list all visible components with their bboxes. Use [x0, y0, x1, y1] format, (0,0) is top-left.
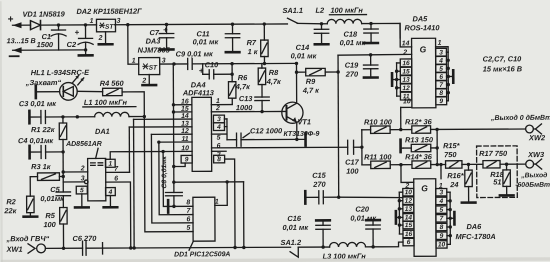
- svg-text:R17 750: R17 750: [479, 149, 508, 158]
- label C5: [50, 185, 60, 194]
- pin 7 DA4: [217, 152, 222, 159]
- label R11 100: [364, 152, 392, 161]
- node C11: [231, 22, 234, 25]
- label MFC-1780A: [455, 232, 495, 241]
- pin 9 DA4 box: [181, 155, 192, 163]
- label R16: [447, 171, 465, 180]
- pin 4 DA5 box: [436, 56, 447, 64]
- svg-text:4,7 к: 4,7 к: [302, 86, 320, 95]
- label DA2 KR1158EN12G: [76, 7, 142, 16]
- svg-text:6: 6: [407, 239, 411, 246]
- wire DA4 pin12: [151, 133, 192, 135]
- label C11 val: [193, 37, 220, 46]
- pin 16 DA6 box: [403, 230, 414, 238]
- resistor R18: [500, 164, 514, 195]
- svg-text:C10: C10: [205, 60, 219, 69]
- label R10 100: [364, 117, 393, 126]
- svg-text:R16*: R16*: [447, 171, 465, 180]
- svg-text:C3 0,01 мк: C3 0,01 мк: [19, 99, 57, 108]
- resistor R8: [258, 64, 266, 98]
- label DA5: [412, 14, 428, 23]
- label R9 val: [302, 86, 320, 95]
- label C9 0,01mk: [176, 49, 214, 58]
- pin 10 DA4: [181, 145, 189, 152]
- capacitor C12: [227, 133, 297, 146]
- svg-text:4: 4: [216, 124, 221, 131]
- connector XW1: [28, 244, 45, 253]
- IC DD1 box: [193, 197, 215, 241]
- pin 9 DA5 box: [436, 97, 447, 105]
- label C4 0,01mk: [18, 136, 54, 145]
- resistor R4: [103, 88, 145, 117]
- wire R11 to DA6 pin2: [401, 165, 414, 183]
- wire DA5 gnd column: [446, 52, 450, 101]
- label C20 val: [350, 214, 377, 223]
- wire DA1 pin7: [106, 171, 130, 173]
- wire DA2 out rail: [114, 23, 287, 26]
- ground VT1 emitter: [297, 133, 306, 145]
- svg-text:„Вход ГВЧ“: „Вход ГВЧ“: [5, 234, 49, 243]
- label C13 val: [236, 103, 253, 112]
- wire bus rail DA4p14: [133, 119, 136, 248]
- node R13 right: [435, 146, 438, 149]
- svg-text:HL1 L-934SRC-E: HL1 L-934SRC-E: [31, 68, 90, 77]
- wire DA5 pin1: [436, 47, 449, 53]
- label G DA6: [421, 183, 428, 193]
- svg-text:100: 100: [346, 167, 359, 176]
- svg-text:C2,C7, C10: C2,C7, C10: [483, 54, 523, 63]
- diode VD1: [30, 21, 40, 30]
- svg-text:SA1.1: SA1.1: [282, 6, 303, 15]
- capacitor C8: [165, 182, 182, 206]
- svg-text:R7: R7: [247, 38, 257, 47]
- connector XW2: [526, 124, 542, 134]
- switch SA1.1: [287, 18, 321, 24]
- pin 10 DA6 box: [403, 188, 414, 196]
- capacitor C12 wire: [224, 119, 227, 140]
- capacitor C5: [56, 176, 71, 207]
- svg-text:15: 15: [402, 68, 410, 75]
- label 15mk16v: [483, 64, 523, 73]
- wire DA4 pin16: [173, 104, 191, 106]
- label AD8561AR: [65, 141, 102, 148]
- pin 6 DA1: [114, 175, 118, 182]
- capacitor C7: [159, 24, 174, 49]
- svg-text:22к: 22к: [3, 206, 17, 215]
- node C15 top: [337, 195, 340, 198]
- wire R3 to R2: [29, 177, 31, 196]
- node atten in: [360, 145, 363, 148]
- arrow plus input: [12, 22, 21, 28]
- wire plus5 to DD1: [174, 182, 244, 206]
- node vdd rail: [242, 246, 245, 249]
- svg-text:VD1 1N5819: VD1 1N5819: [22, 9, 65, 18]
- pin 1 DD1: [215, 199, 219, 206]
- wire DA4 pin2 to base: [211, 110, 286, 112]
- svg-text:10: 10: [403, 98, 411, 105]
- svg-text:R3 1к: R3 1к: [31, 162, 52, 171]
- label VD1 1N5819: [22, 9, 65, 18]
- inductor L1: [95, 112, 145, 117]
- node p16: [172, 103, 175, 106]
- wire atten vertical: [361, 130, 363, 165]
- label plus: [7, 14, 13, 25]
- pin 16 DA4: [181, 99, 189, 106]
- svg-text:C8 0,01мк: C8 0,01мк: [161, 156, 168, 189]
- svg-text:12: 12: [181, 128, 189, 135]
- label XW3: [527, 150, 545, 159]
- wire XW1 to C6: [45, 247, 82, 249]
- node R1 top: [61, 115, 64, 118]
- svg-text:4: 4: [438, 198, 443, 205]
- label zahvat: [25, 78, 62, 87]
- node C8 bottom: [172, 205, 175, 208]
- label L2: [315, 6, 325, 15]
- svg-text:0,01 мк: 0,01 мк: [282, 223, 309, 232]
- svg-text:AD8561AR: AD8561AR: [65, 141, 102, 148]
- pin 3 DA6 right box: [436, 188, 447, 196]
- ground DA1 pin5: [75, 194, 89, 208]
- capacitor C6: [83, 241, 103, 255]
- svg-text:R9: R9: [306, 77, 316, 86]
- svg-text:4: 4: [438, 58, 443, 65]
- node R16 top: [467, 163, 470, 166]
- wire bus DA4p12 DD1p6: [151, 134, 193, 223]
- wire DA1 pin3: [63, 180, 88, 184]
- label R5 val: [43, 220, 56, 229]
- svg-text:VT1: VT1: [297, 117, 311, 126]
- svg-text:10: 10: [438, 241, 446, 248]
- label C3 0,01mk: [19, 99, 57, 108]
- pin 10 DA6 right box: [436, 241, 447, 249]
- label C14: [296, 43, 310, 52]
- node R7 bottom: [263, 62, 266, 65]
- pin 8 DA4 box: [214, 155, 225, 163]
- label C2 C7 C10: [483, 54, 523, 63]
- svg-text:0,01мк: 0,01мк: [40, 194, 65, 203]
- resistor R16: [462, 164, 476, 202]
- svg-text:+: +: [199, 66, 204, 75]
- ground DA5 right: [448, 70, 453, 82]
- pin 2 DA1: [80, 165, 85, 172]
- node R12 right: [435, 128, 438, 131]
- pin 3 DA1: [81, 175, 85, 182]
- svg-text:9: 9: [439, 98, 443, 105]
- label vhod gvch: [5, 234, 49, 243]
- capacitor C4: [30, 145, 64, 158]
- capacitor C13: [255, 97, 269, 112]
- inductor L2: [321, 19, 371, 24]
- label DA4: [191, 80, 206, 89]
- voltage regulator DA3: [139, 58, 160, 75]
- svg-text:1000: 1000: [236, 103, 253, 112]
- svg-text:C4 0,01мк: C4 0,01мк: [18, 136, 54, 145]
- resistor R12: [401, 126, 437, 134]
- label C5 val: [40, 194, 65, 203]
- wire DA6 gnd column: [447, 192, 452, 244]
- ground DA5 left: [392, 73, 397, 85]
- svg-text:7: 7: [440, 215, 444, 222]
- label C14 val: [291, 51, 318, 60]
- svg-text:C2: C2: [67, 40, 77, 49]
- transistor VT1 collector: [286, 63, 296, 109]
- svg-text:R15*: R15*: [443, 141, 461, 150]
- svg-text:13: 13: [181, 121, 189, 128]
- pin 1 DA5: [438, 40, 442, 47]
- svg-text:7: 7: [186, 208, 191, 215]
- label R18: [490, 170, 504, 179]
- pin 6 DA5 box: [436, 73, 447, 81]
- node p11 bus: [157, 140, 160, 143]
- voltage regulator DA2: [96, 19, 115, 32]
- svg-text:C20: C20: [355, 205, 369, 214]
- node return gnd: [84, 48, 87, 51]
- node R7 rail: [263, 22, 266, 25]
- svg-text:4,7к: 4,7к: [235, 82, 251, 91]
- label R7: [247, 38, 257, 47]
- pin 2 DA3: [141, 78, 146, 85]
- svg-text:„Выход 0 дБмВт“: „Выход 0 дБмВт“: [490, 114, 550, 122]
- IC DA4 box: [192, 97, 212, 171]
- capacitor C14: [314, 24, 328, 45]
- svg-text:3: 3: [439, 189, 443, 196]
- svg-text:100 мкГн: 100 мкГн: [330, 6, 363, 15]
- svg-text:+: +: [75, 28, 80, 37]
- svg-text:8: 8: [439, 90, 443, 97]
- wire C15 line to DA6: [339, 197, 403, 198]
- pin 3 DA2: [117, 18, 121, 25]
- wire VD1 to DA2: [40, 24, 96, 26]
- pin 8 DD1: [186, 199, 190, 206]
- svg-text:NJM7805: NJM7805: [138, 45, 171, 54]
- pin 15 DA5 box: [400, 67, 411, 75]
- label L1 val: [83, 98, 136, 107]
- label ADF4113: [182, 88, 215, 97]
- svg-text:„Захват“: „Захват“: [25, 78, 62, 87]
- capacitor C19: [363, 55, 378, 78]
- pin 6 DA6 box: [403, 238, 414, 246]
- wire DA1 pin6: [106, 182, 131, 248]
- ground DA2: [99, 32, 113, 45]
- svg-text:C17: C17: [345, 158, 359, 167]
- ground DD1p8: [167, 200, 170, 212]
- capacitor C16: [316, 220, 331, 247]
- node plus5 DA4: [230, 62, 233, 65]
- pin 11 DA5 box: [400, 92, 411, 100]
- wire DA4 pin11: [159, 141, 192, 143]
- svg-text:15: 15: [405, 222, 413, 229]
- svg-text:0,01 мк: 0,01 мк: [350, 214, 377, 223]
- svg-text:C12 1000: C12 1000: [250, 126, 283, 135]
- svg-text:R2: R2: [6, 197, 16, 206]
- transistor VT1 emitter: [287, 116, 297, 139]
- label R14 36: [405, 152, 433, 161]
- svg-text:G: G: [421, 183, 428, 193]
- svg-text:R6: R6: [238, 73, 248, 82]
- svg-text:750: 750: [444, 150, 457, 159]
- label plus C10: [199, 66, 204, 75]
- svg-text:0,01 мк: 0,01 мк: [291, 51, 318, 60]
- label DA3: [146, 37, 162, 46]
- pin 15 DA6 box: [403, 221, 414, 229]
- capacitor C1: [51, 25, 66, 50]
- resistor R6: [211, 64, 236, 105]
- pin 15 DA4: [181, 106, 189, 113]
- wire XW2 line: [437, 128, 525, 130]
- pin 7 DA1: [114, 166, 119, 173]
- wire bus DA4p11 DD1p7: [159, 142, 193, 215]
- svg-text:DA6: DA6: [466, 222, 482, 231]
- node C13 base: [260, 110, 263, 113]
- pin 7 DD1: [186, 208, 191, 215]
- IC DA6 box: [414, 179, 436, 257]
- label ROS-1410: [404, 23, 440, 32]
- svg-text:8: 8: [186, 199, 190, 206]
- svg-text:1: 1: [215, 199, 219, 206]
- svg-text:КТ3130Ф-9: КТ3130Ф-9: [283, 131, 319, 138]
- label R15: [443, 141, 461, 150]
- label C15 val: [312, 180, 326, 189]
- pin 16 DA5 box: [400, 59, 411, 67]
- pin 12 DA5 box: [400, 84, 411, 92]
- label C10: [205, 60, 219, 69]
- node C8 top: [172, 180, 175, 183]
- svg-text:R8: R8: [269, 68, 279, 77]
- label vyhod minus60: [515, 171, 550, 189]
- label C17: [345, 158, 359, 167]
- label R6 val: [235, 82, 251, 91]
- pin 4 DA6 right box: [436, 197, 447, 205]
- pin 9 DA6 right box: [436, 232, 447, 240]
- label R8: [269, 68, 279, 77]
- wire rail to DA5: [371, 23, 400, 38]
- ground DA6 left: [396, 211, 400, 223]
- label NJM7805: [138, 45, 171, 54]
- wire DA4 pin14: [134, 118, 192, 120]
- label VT1: [297, 117, 311, 126]
- node R3 right: [62, 175, 65, 178]
- capacitor C20: [366, 220, 381, 247]
- svg-text:11: 11: [181, 136, 188, 143]
- svg-text:ADF4113: ADF4113: [182, 88, 215, 97]
- svg-text:G: G: [420, 44, 427, 54]
- capacitor C2: [78, 25, 93, 50]
- node DA3 feed: [126, 23, 129, 26]
- wire DA4 pin5: [212, 133, 226, 135]
- label R4 560: [100, 79, 125, 88]
- pin 12 DA4: [181, 128, 189, 135]
- pin 5 DA1 box: [76, 186, 87, 194]
- IC DA1 box: [88, 158, 106, 200]
- svg-text:2: 2: [98, 35, 103, 42]
- node DA6 out: [439, 163, 442, 166]
- label R2: [6, 197, 16, 206]
- svg-text:14: 14: [181, 113, 189, 120]
- label R13 150: [405, 135, 434, 144]
- wire DA4 pin8: [225, 159, 235, 248]
- wire DA4 pin13: [129, 126, 192, 128]
- pin 14 DA4: [181, 113, 189, 120]
- label C16: [287, 214, 301, 223]
- wire XW3 line: [507, 163, 526, 165]
- pin 5 DA4: [217, 135, 221, 142]
- label plus C2: [75, 28, 80, 37]
- svg-text:DD1 PIC12C509A: DD1 PIC12C509A: [174, 251, 230, 258]
- label R18 val: [493, 177, 501, 186]
- svg-text:ST: ST: [105, 24, 114, 31]
- wire SA1.2 right: [298, 246, 323, 248]
- pin 3 DA4 box: [213, 115, 224, 123]
- svg-text:„Выход: „Выход: [520, 171, 547, 179]
- resistor R17: [468, 161, 506, 169]
- node C2 top: [84, 23, 87, 26]
- pin 8 DA5 box: [436, 89, 447, 97]
- ground HL1: [34, 86, 37, 98]
- svg-text:R1 22к: R1 22к: [31, 125, 56, 134]
- wire DA6 pin1: [440, 165, 442, 179]
- label R15 val: [444, 150, 457, 159]
- svg-text:XW2: XW2: [528, 133, 546, 142]
- capacitor C10: [203, 64, 232, 79]
- wire DA3 out: [160, 63, 188, 65]
- wire DA4 pin6: [212, 146, 348, 149]
- svg-text:6: 6: [186, 216, 190, 223]
- capacitor C3: [29, 110, 94, 123]
- node R14 right: [436, 163, 439, 166]
- label C7: [150, 28, 160, 37]
- node L2 right: [369, 22, 372, 25]
- label minus: [10, 55, 19, 57]
- label R3 1k: [31, 162, 52, 171]
- svg-text:15 мк×16 В: 15 мк×16 В: [483, 64, 523, 73]
- svg-text:ST: ST: [149, 65, 158, 72]
- svg-text:1: 1: [132, 58, 136, 65]
- wire R9 vertical: [337, 55, 340, 197]
- leader DA1: [96, 148, 99, 158]
- svg-text:+: +: [7, 14, 13, 25]
- wire DA5 pin14: [400, 23, 412, 47]
- inductor L3: [323, 242, 373, 247]
- svg-text:270: 270: [345, 70, 359, 79]
- svg-text:0,01 мк: 0,01 мк: [340, 38, 367, 47]
- pin 6 DD1: [186, 216, 190, 223]
- svg-text:6: 6: [217, 143, 221, 150]
- svg-text:R14* 36: R14* 36: [405, 152, 433, 161]
- pin 5 DA6 right box: [436, 206, 447, 214]
- node emitter gnd: [295, 138, 298, 141]
- svg-text:12: 12: [405, 198, 413, 205]
- ground R13: [401, 140, 404, 152]
- capacitor C11: [225, 24, 240, 52]
- wire DA4 pin15: [174, 111, 192, 113]
- svg-text:0,01 мк: 0,01 мк: [193, 37, 220, 46]
- label DA6: [466, 222, 482, 231]
- svg-text:R4 560: R4 560: [100, 79, 125, 88]
- pin 11 DA4: [181, 136, 188, 143]
- svg-text:3: 3: [217, 116, 221, 123]
- svg-text:16: 16: [181, 99, 189, 106]
- svg-text:L2: L2: [315, 6, 325, 15]
- svg-text:270: 270: [312, 180, 326, 189]
- label SA1.2: [281, 238, 302, 247]
- label 13...15V: [7, 36, 36, 45]
- label vyhod 0dBm: [490, 114, 550, 122]
- switch SA1.2: [290, 247, 298, 257]
- label C16 val: [282, 223, 309, 232]
- ground DA3: [142, 75, 156, 86]
- svg-text:C16: C16: [287, 214, 301, 223]
- svg-text:2: 2: [402, 49, 407, 56]
